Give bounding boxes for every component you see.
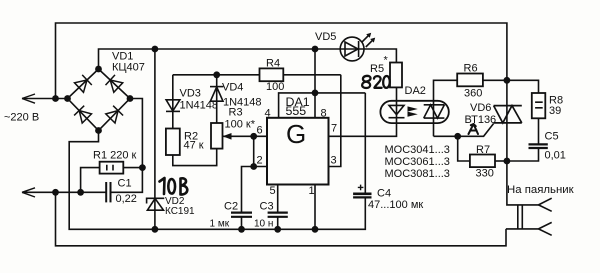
capacitor C2 — [231, 213, 252, 217]
handwritten А gate annotation — [469, 124, 479, 134]
svg-text:КЦ407: КЦ407 — [112, 62, 145, 74]
wire bottom AC rail to plug — [56, 192, 507, 246]
resistor R6 — [457, 74, 483, 87]
wire C4 riser — [364, 93, 366, 193]
diode VD1 bottom-right arm — [106, 106, 123, 123]
svg-text:100 к*: 100 к* — [225, 119, 256, 131]
LED VD5 — [340, 33, 375, 61]
optocoupler DA2 LED — [389, 105, 405, 117]
wire pins 2-6 vertical — [253, 136, 255, 166]
svg-text:3: 3 — [331, 155, 337, 167]
svg-text:555: 555 — [286, 104, 307, 118]
svg-text:MOC3061...3: MOC3061...3 — [385, 156, 450, 168]
wire plug lower prong — [506, 228, 539, 230]
wire node A to R7 — [458, 136, 470, 161]
timer IC DA1 555 box — [267, 118, 329, 185]
wire C2 bottom — [241, 217, 243, 229]
optocoupler DA2 photo-triac — [424, 105, 445, 118]
svg-text:47 к: 47 к — [184, 140, 204, 152]
wire C3 bottom — [277, 217, 279, 229]
wire ground rail — [69, 131, 365, 230]
capacitor C5 — [529, 144, 548, 148]
wire bridge top to supply row and to R5 — [99, 49, 397, 69]
resistor R8 — [532, 93, 546, 118]
capacitor C1 — [106, 182, 110, 202]
wire R6 right — [483, 79, 507, 81]
capacitor C4 polarized — [353, 185, 371, 198]
wire C1 right to bridge right vertex — [111, 99, 143, 193]
svg-text:330: 330 — [476, 168, 494, 180]
handwritten 10В annotation — [160, 178, 188, 195]
diode VD1 top-right arm — [106, 75, 123, 92]
resistor R2 — [166, 129, 180, 156]
svg-text:100: 100 — [266, 81, 284, 93]
svg-text:C5: C5 — [545, 131, 559, 143]
handwritten 820 annotation — [362, 76, 390, 88]
wire pin1 to ground — [314, 185, 316, 230]
wire R2 bottom to R3 bottom — [173, 149, 217, 166]
wire R7 right — [495, 160, 507, 162]
wire VD3 branch — [172, 75, 174, 129]
wire pin7 row to opto LED — [329, 87, 397, 136]
wire R1 branch — [81, 168, 143, 193]
wire VD4 branch — [216, 75, 218, 123]
svg-text:КС191: КС191 — [165, 206, 195, 217]
svg-text:1: 1 — [309, 185, 315, 197]
diode VD1 bottom-left arm — [74, 106, 91, 123]
svg-text:2: 2 — [257, 155, 263, 167]
svg-text:MOC3081...3: MOC3081...3 — [385, 168, 450, 180]
wire top rail from AC node up, across, down to triac — [56, 23, 507, 106]
resistor R4 — [260, 68, 284, 81]
svg-text:DA2: DA2 — [405, 85, 426, 97]
wire pin5 to C3 — [277, 185, 279, 212]
svg-text:4: 4 — [265, 108, 271, 120]
svg-text:R6: R6 — [464, 63, 478, 75]
capacitor C3 — [268, 213, 288, 217]
diode VD4 — [210, 87, 223, 102]
zener VD2 КС191 — [147, 198, 165, 210]
diode VD1 top-left arm — [75, 75, 92, 92]
svg-text:VD3: VD3 — [180, 88, 201, 100]
svg-text:5: 5 — [270, 185, 276, 197]
svg-text:7: 7 — [331, 123, 337, 135]
svg-text:R5: R5 — [370, 63, 384, 75]
svg-text:10 н: 10 н — [254, 219, 273, 230]
svg-text:R4: R4 — [266, 58, 280, 70]
wire triac to plug upper prong — [507, 106, 539, 205]
svg-text:1 мк: 1 мк — [210, 219, 230, 230]
svg-text:ВТ136: ВТ136 — [465, 114, 497, 126]
wire R8 branch — [507, 80, 539, 161]
svg-text:VD6: VD6 — [470, 102, 491, 114]
resistor R1 — [100, 162, 124, 174]
bridge rectifier VD1 КЦ407 diamond — [68, 69, 131, 131]
wire opto out to node A and gate — [434, 124, 494, 137]
svg-text:R7: R7 — [476, 144, 490, 156]
svg-text:~220 В: ~220 В — [4, 112, 39, 124]
wire pin2 row and C2 stub — [242, 167, 268, 212]
svg-text:6: 6 — [257, 125, 263, 137]
wire VD2 branch riser — [154, 49, 156, 229]
svg-text:MOC3041...3: MOC3041...3 — [385, 144, 450, 156]
wire AC top lead with arrow — [22, 94, 68, 103]
wire R4 row — [173, 74, 341, 76]
wire pins 4 and 8 supply row — [279, 49, 366, 118]
plug symbol to soldering iron — [518, 198, 552, 235]
wire pin6 row with wiper — [223, 135, 267, 137]
svg-text:R3: R3 — [229, 107, 243, 119]
triac VD6 BT136 — [494, 106, 522, 123]
svg-text:39: 39 — [549, 105, 561, 117]
diode VD3 — [166, 100, 180, 112]
wire AC bottom lead with arrow — [22, 188, 106, 197]
svg-text:R1 220 к: R1 220 к — [93, 150, 137, 162]
svg-text:На паяльник: На паяльник — [507, 184, 575, 196]
wire pin3 riser — [329, 75, 341, 167]
resistor R5 — [390, 63, 402, 88]
svg-text:1N4148: 1N4148 — [180, 100, 219, 112]
resistor R7 — [470, 155, 495, 168]
svg-text:VD5: VD5 — [315, 31, 336, 43]
optocoupler DA2 light arrows — [408, 106, 418, 116]
svg-text:*: * — [384, 55, 389, 67]
optocoupler DA2 body — [380, 101, 448, 123]
svg-text:0,01: 0,01 — [545, 150, 566, 162]
potentiometer R3 — [211, 123, 232, 149]
svg-text:G: G — [286, 119, 306, 149]
svg-text:8: 8 — [321, 108, 327, 120]
svg-text:C1: C1 — [118, 178, 132, 190]
svg-text:C3: C3 — [260, 201, 274, 213]
svg-text:VD4: VD4 — [222, 82, 243, 94]
svg-text:0,22: 0,22 — [116, 193, 137, 205]
svg-text:47...100 мк: 47...100 мк — [368, 199, 423, 211]
svg-text:360: 360 — [464, 88, 482, 100]
junction node dots — [52, 46, 510, 233]
wire R6 left to opto triac — [434, 80, 458, 136]
svg-text:C4: C4 — [377, 188, 391, 200]
svg-text:C2: C2 — [224, 201, 238, 213]
